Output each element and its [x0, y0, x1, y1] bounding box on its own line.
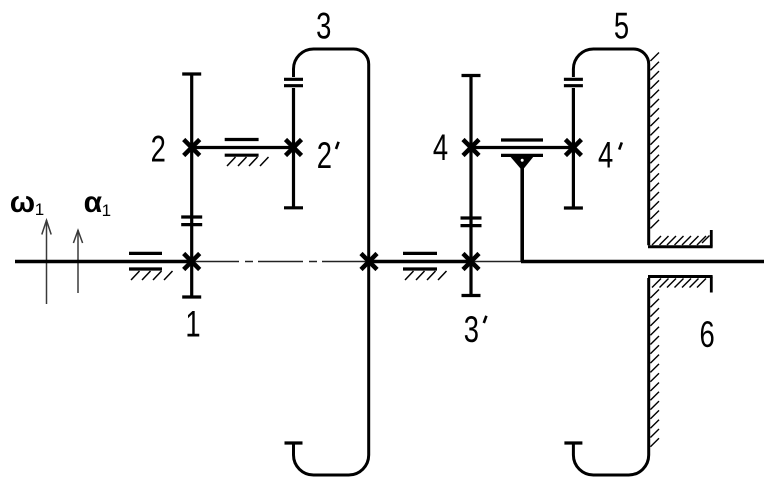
arrow omega1 [42, 220, 51, 304]
svg-text:2: 2 [317, 135, 332, 176]
svg-text:5: 5 [614, 5, 629, 46]
label 4' [598, 135, 613, 176]
wire thin axis between gear 3' and carrier [471, 261, 521, 263]
coupling between gear 1 and gear 2 [181, 217, 202, 225]
shaft end cap bottom (gear 4') [564, 206, 583, 209]
shaft of gears 3' and 4 [469, 76, 472, 296]
wire link gears 2 to 2' [192, 146, 294, 149]
svg-text:1: 1 [185, 303, 200, 344]
carrier bearing on link 4-4' [501, 140, 543, 155]
svg-text:6: 6 [699, 314, 714, 355]
label 3 [316, 5, 331, 46]
label omega1 (input angular velocity) [10, 186, 44, 219]
svg-text:α: α [84, 186, 103, 219]
shaft of gears 1 and 2 [190, 74, 193, 297]
shaft end cap bottom (gear 3') [462, 294, 481, 297]
frame lower flange [648, 277, 713, 293]
wire link gears 4 to 4' (carrier link) [471, 146, 573, 149]
label 6 [699, 314, 714, 355]
gear 2 mesh cross [184, 140, 200, 156]
label 5 [614, 5, 629, 46]
carrier arm to output shaft [520, 168, 524, 262]
shaft end cap top (gear 4) [462, 74, 481, 77]
coupling between gear 2' and ring 3 [284, 79, 303, 85]
wire shaft between ring 3 and gear 3' [369, 260, 471, 263]
coupling between gear 4' and ring 5 [564, 79, 583, 85]
shaft of gear 4' [572, 88, 575, 208]
wire output shaft [521, 260, 764, 263]
svg-text:3: 3 [464, 309, 479, 350]
ring gear 3 outline [294, 49, 369, 475]
wire axis centerline (dash-dot) [194, 261, 369, 263]
label 4 [433, 127, 448, 168]
gear 1 mesh cross [184, 254, 200, 270]
label 2' [317, 135, 332, 176]
label 3' [464, 309, 479, 350]
frame upper flange [648, 230, 713, 247]
bearing B1 on input shaft [129, 253, 173, 280]
carrier support triangle [511, 157, 534, 171]
svg-text:4: 4 [433, 127, 448, 168]
shaft end cap bottom (gear 2') [284, 206, 303, 209]
svg-text:3: 3 [316, 5, 331, 46]
frame wall hatching lower [650, 290, 659, 447]
ring 3 lower tooth cap [285, 441, 303, 444]
label alpha1 (input angular acceleration) [84, 186, 111, 220]
shaft end cap top (gear 2) [182, 72, 201, 75]
gear 4' mesh cross [565, 140, 581, 156]
svg-text:ω: ω [10, 186, 35, 219]
svg-text:1: 1 [35, 200, 44, 219]
label 1 [185, 303, 200, 344]
shaft end cap bottom (gear 1) [182, 295, 201, 298]
gear 4 mesh cross [463, 140, 479, 156]
ring gear 5 outline upper part [573, 49, 648, 245]
bearing B3 on link 2-2' [225, 140, 269, 167]
frame wall hatching upper [650, 53, 659, 229]
gear 2' mesh cross [286, 140, 302, 156]
ring gear 5 outline lower part [573, 278, 648, 475]
label 2 [151, 129, 166, 170]
ring 5 lower tooth cap [564, 441, 582, 444]
svg-text:1: 1 [102, 201, 111, 220]
gear 3' mesh cross [463, 254, 479, 270]
ring 3 hub cross on axis [361, 254, 377, 270]
wire input shaft [15, 260, 193, 263]
svg-text:4: 4 [598, 135, 613, 176]
coupling between gear 3' and gear 4 [461, 218, 482, 226]
arrow alpha1 [73, 230, 82, 293]
svg-text:2: 2 [151, 129, 166, 170]
bearing B2 on shaft 3-3' [403, 253, 447, 280]
shaft of gear 2' [292, 88, 295, 208]
